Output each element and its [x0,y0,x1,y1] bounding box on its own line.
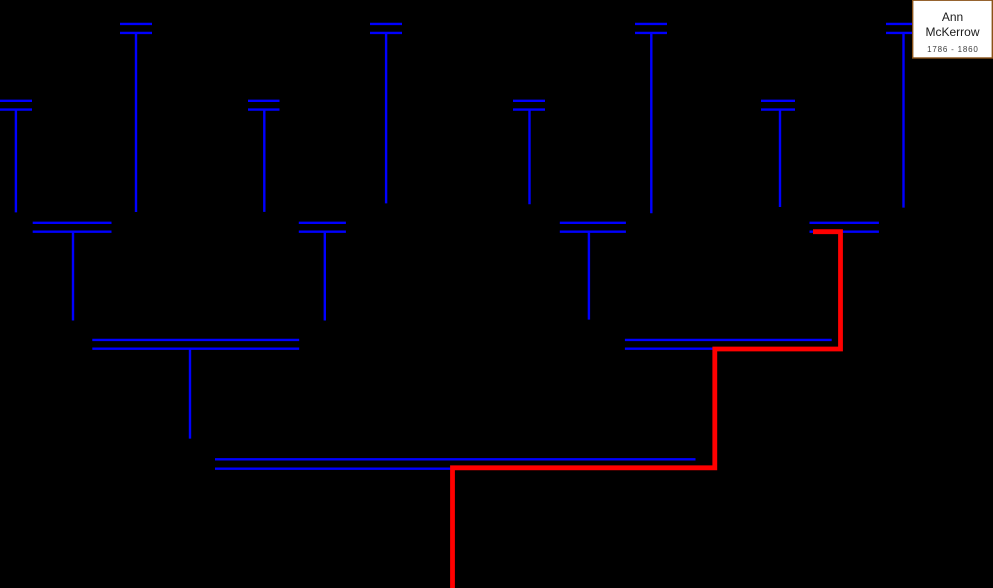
marriage M14 (gen2 right, on red lineage) [625,340,832,349]
person line P6 (child of M6) [263,110,265,212]
marriage M8 (gen4) [761,101,795,110]
marriage M15 (gen1, parents of root) [215,459,696,468]
svg-text:Ann: Ann [942,10,963,24]
marriage M12 (gen3, on red lineage) [810,223,879,232]
marriage M13 (gen2 left) [92,340,299,349]
person line P7 (child of M7) [528,110,530,205]
marriage M10 (gen3) [299,223,346,232]
person line P4 (child of M4, Ann's child) [902,33,904,208]
marriage M6 (gen4) [248,101,280,110]
person line P12 (child of M13) [189,349,191,439]
red lineage path from marriage M12 down to root person [453,232,841,588]
person line P10 (child of M10) [324,232,326,321]
marriage M5 (gen4, left edge) [0,101,32,110]
marriage M4 (gen5, Ann McKerrow) [886,24,918,33]
person line P3 (child of M3) [650,33,652,213]
person line P9 (child of M9) [72,232,74,321]
person line P5 (child of M5) [15,110,17,213]
marriage M1 (gen5, far left top) [120,24,152,33]
svg-text:1786 - 1860: 1786 - 1860 [927,45,979,54]
person line P8 (child of M8) [779,110,781,207]
svg-text:McKerrow: McKerrow [925,25,979,39]
person line P11 (child of M11) [588,232,590,320]
marriage M11 (gen3) [560,223,626,232]
marriage M2 (gen5) [370,24,402,33]
marriage M7 (gen4) [513,101,545,110]
marriage M3 (gen5) [635,24,667,33]
person line P1 (child of M1) [135,33,137,212]
marriage M9 (gen3) [33,223,112,232]
person line P2 (child of M2) [385,33,387,204]
name box: Ann McKerrow 1786-1860 [913,0,993,58]
